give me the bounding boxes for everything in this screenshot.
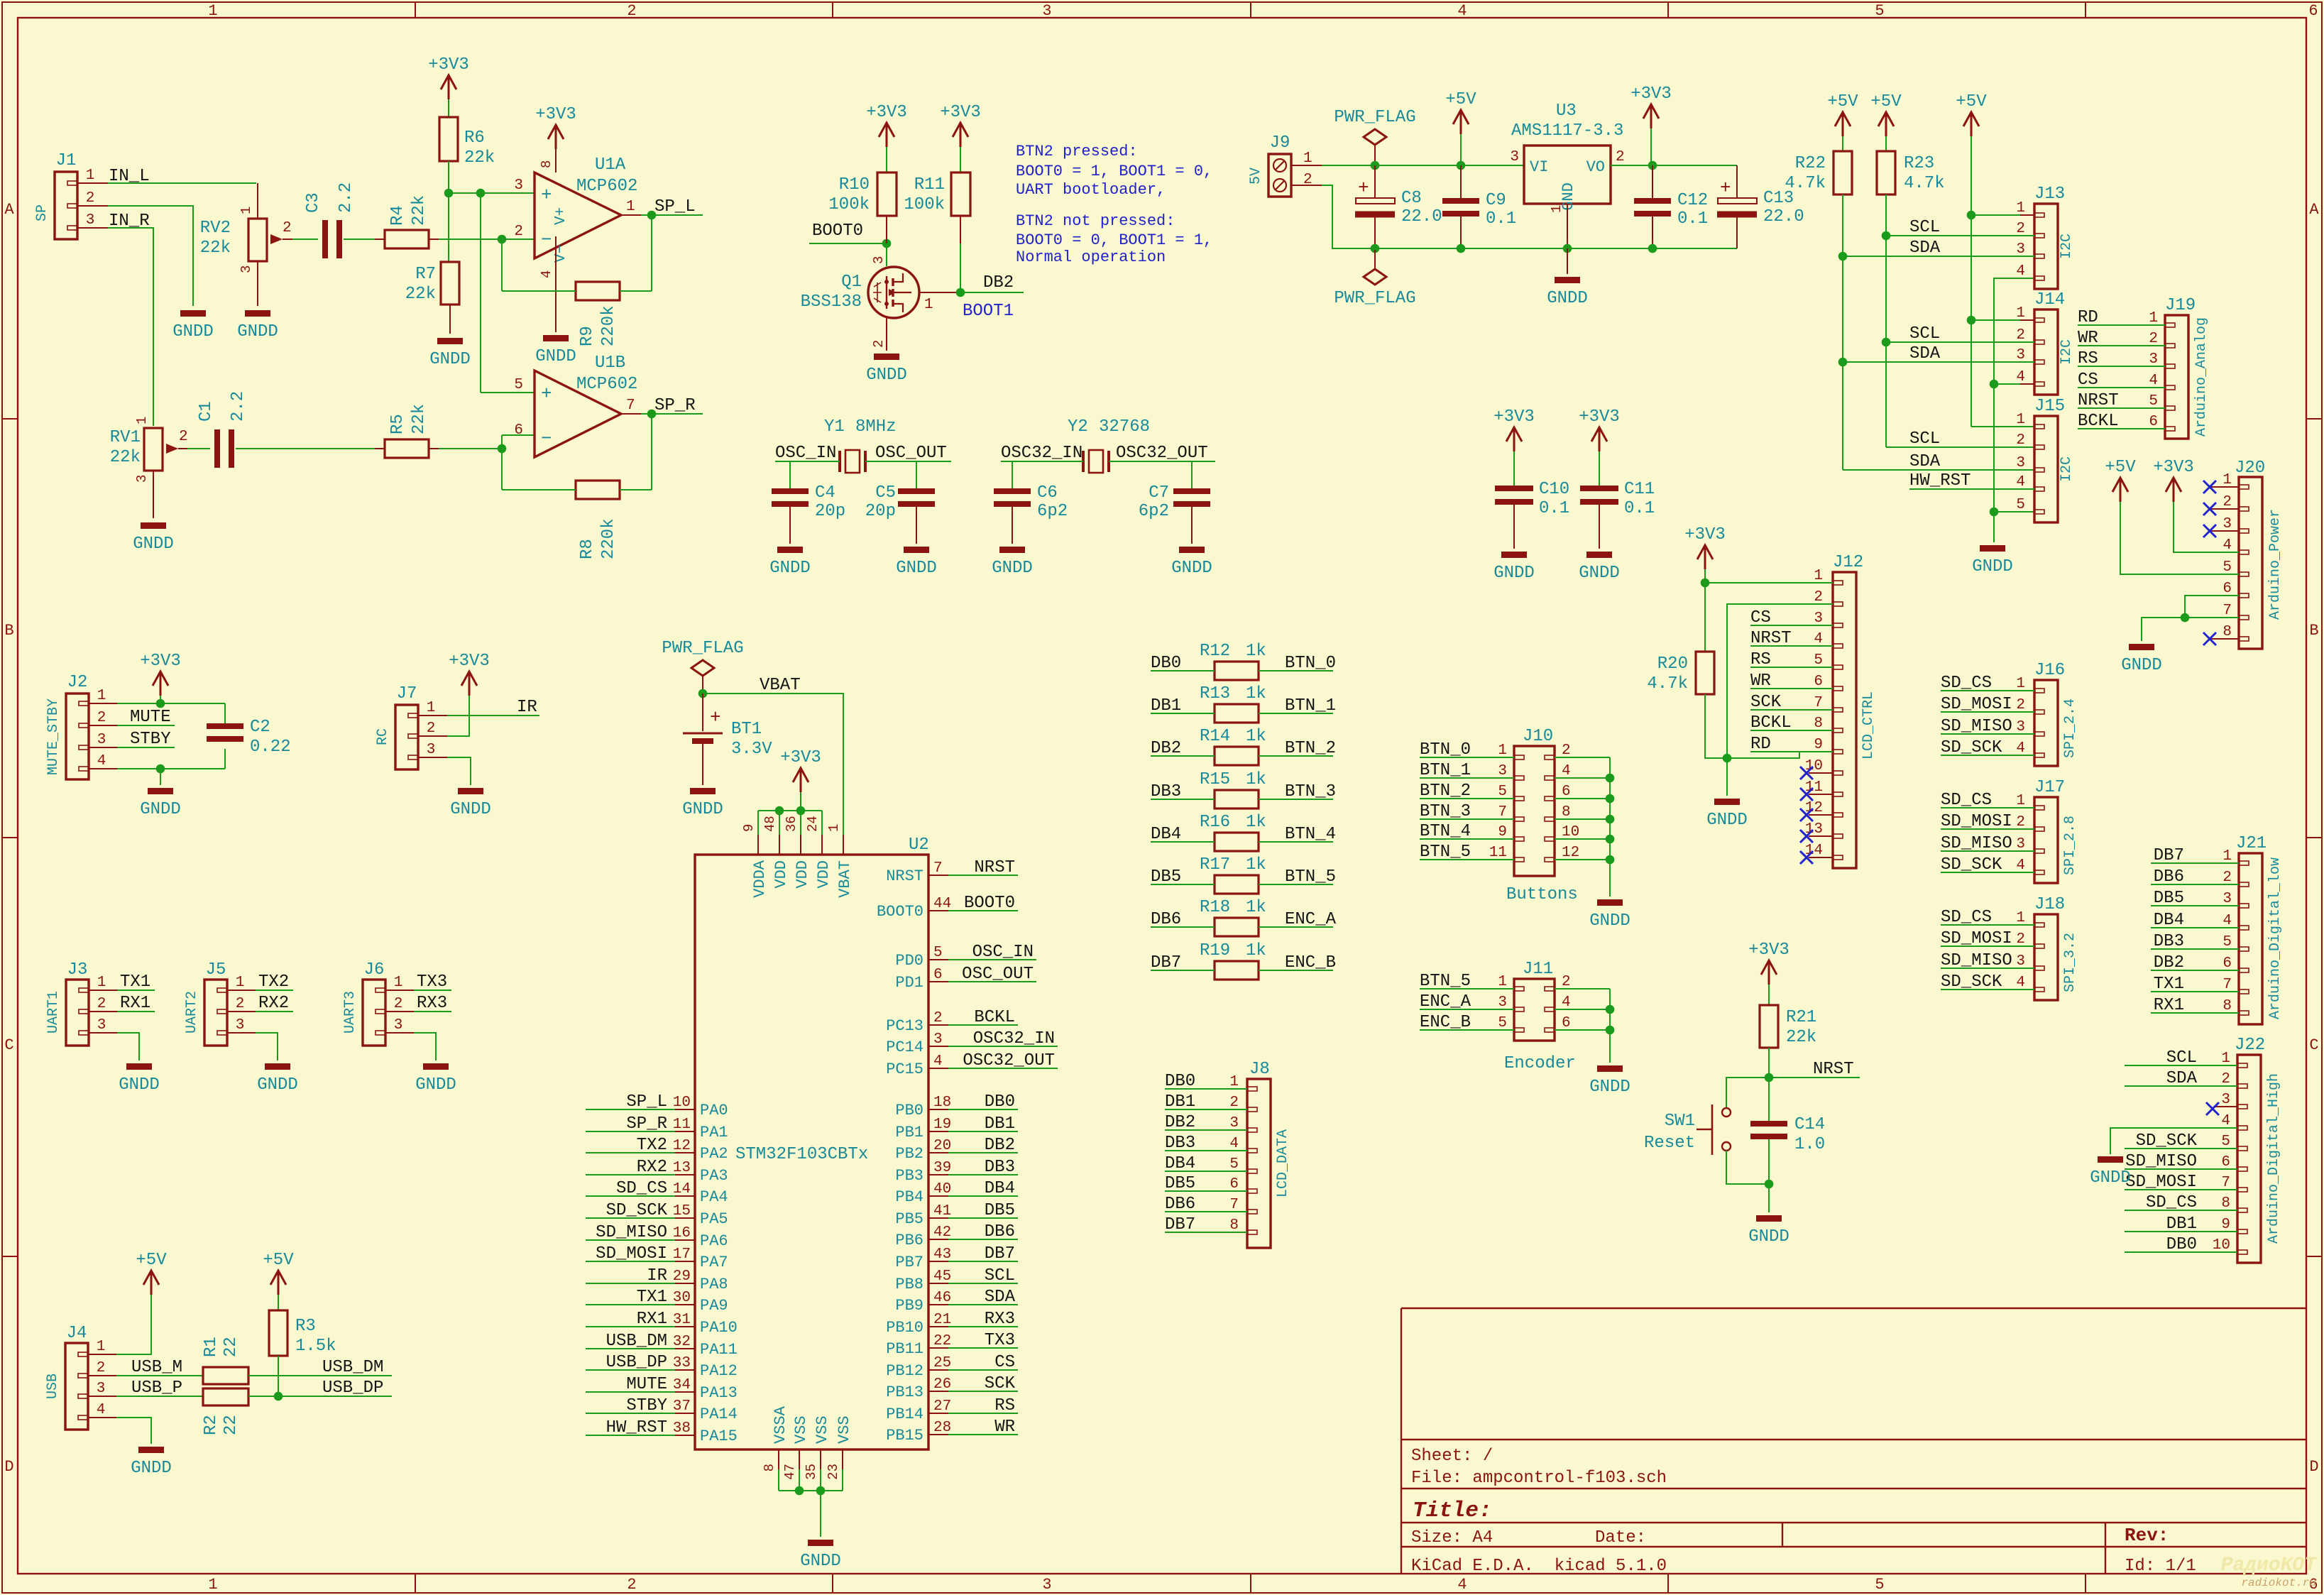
svg-text:+: +: [710, 707, 721, 728]
svg-text:2: 2: [2222, 870, 2232, 886]
svg-text:R16: R16: [1200, 813, 1230, 832]
svg-text:TX2: TX2: [258, 972, 289, 992]
svg-text:RD: RD: [1750, 735, 1771, 754]
connector J2 (MUTE_STBY): [66, 694, 89, 779]
svg-text:C: C: [2309, 1036, 2318, 1054]
svg-text:3: 3: [97, 1017, 106, 1034]
svg-text:PB2: PB2: [895, 1145, 923, 1163]
label TX2 (J5.1): [227, 990, 256, 991]
capacitor C7 6p2: [1173, 488, 1210, 494]
node NRST: [1765, 1073, 1774, 1082]
svg-text:2: 2: [97, 710, 106, 726]
svg-text:1: 1: [134, 417, 150, 424]
svg-text:SD_MISO: SD_MISO: [1941, 834, 2012, 853]
power +5V (C9): [1453, 110, 1469, 134]
svg-text:GNDD: GNDD: [450, 800, 491, 819]
svg-text:RS: RS: [1750, 650, 1771, 669]
svg-text:R7: R7: [415, 265, 436, 284]
svg-text:45: 45: [933, 1268, 951, 1285]
svg-text:UART2: UART2: [184, 991, 200, 1034]
pin 32 PA11 / label USB_DM (U2 left): [675, 1348, 695, 1349]
svg-text:SP: SP: [34, 204, 50, 221]
svg-text:26: 26: [933, 1376, 951, 1393]
svg-text:4: 4: [2016, 857, 2025, 874]
svg-text:RX2: RX2: [637, 1158, 667, 1177]
connector J17 (SPI_2.8): [2034, 797, 2058, 883]
svg-text:C8: C8: [1401, 189, 1422, 208]
svg-text:IN_R: IN_R: [109, 212, 150, 231]
svg-text:2: 2: [1229, 1095, 1239, 1111]
pin 42 PB6 / label DB6 (U2 right): [928, 1239, 948, 1240]
svg-text:SCL: SCL: [1909, 218, 1940, 237]
svg-text:30: 30: [673, 1290, 691, 1306]
power +3V3 (J12): [1697, 545, 1713, 569]
connector J5 (UART2): [204, 980, 227, 1046]
svg-text:1: 1: [924, 297, 933, 313]
svg-text:4: 4: [1562, 763, 1571, 779]
svg-text:D: D: [4, 1458, 13, 1476]
svg-text:BTN_2: BTN_2: [1420, 782, 1471, 801]
svg-text:J14: J14: [2034, 290, 2065, 309]
power +5V (R22): [1835, 112, 1851, 136]
svg-text:17: 17: [673, 1246, 691, 1263]
svg-text:C9: C9: [1486, 191, 1506, 210]
resistor R1 22: [203, 1367, 248, 1384]
svg-text:C7: C7: [1149, 483, 1169, 503]
svg-text:DB6: DB6: [985, 1222, 1015, 1242]
svg-text:DB5: DB5: [985, 1201, 1015, 1220]
svg-text:6: 6: [2221, 1154, 2230, 1171]
svg-text:J16: J16: [2034, 661, 2065, 680]
svg-text:DB0: DB0: [2166, 1235, 2197, 1254]
wire Q1 drain to DB2 node: [919, 292, 960, 293]
svg-text:OSC32_IN: OSC32_IN: [973, 1029, 1055, 1048]
svg-text:10: 10: [2213, 1237, 2230, 1254]
svg-text:8: 8: [2222, 624, 2232, 640]
pin 1 VBAT (U2 top): [843, 835, 844, 855]
wire R21 to NRST node: [1768, 1048, 1770, 1078]
svg-text:2: 2: [933, 1010, 943, 1026]
svg-text:12: 12: [1562, 845, 1579, 861]
svg-text:1: 1: [2016, 305, 2025, 322]
svg-text:BCKL: BCKL: [2078, 412, 2119, 431]
svg-text:+: +: [1720, 177, 1731, 199]
svg-text:1: 1: [2222, 472, 2232, 488]
svg-text:A: A: [4, 201, 14, 219]
pin 19 PB1 / label DB1 (U2 right): [928, 1131, 948, 1132]
resistor R22 4.7k: [1834, 151, 1852, 194]
svg-text:SP_R: SP_R: [626, 1114, 667, 1134]
svg-text:RV2: RV2: [200, 219, 231, 238]
wire J11 pin 4: [1555, 1009, 1610, 1010]
svg-text:5: 5: [933, 945, 943, 961]
connector J10 (Buttons): [1514, 746, 1555, 876]
svg-text:ENC_B: ENC_B: [1285, 953, 1336, 972]
svg-text:3: 3: [2016, 455, 2025, 471]
svg-text:USB_DM: USB_DM: [322, 1358, 383, 1377]
svg-text:BTN_0: BTN_0: [1420, 740, 1471, 760]
connector J8 (LCD_DATA): [1247, 1079, 1271, 1248]
svg-text:+3V3: +3V3: [449, 652, 490, 671]
svg-text:DB4: DB4: [2154, 911, 2184, 930]
svg-text:1: 1: [626, 199, 635, 215]
svg-text:6: 6: [1814, 674, 1823, 690]
svg-text:R20: R20: [1657, 654, 1688, 674]
svg-text:2: 2: [2016, 327, 2025, 344]
svg-text:3: 3: [2016, 953, 2025, 970]
svg-text:38: 38: [673, 1420, 691, 1437]
no-connect x (J12 pin 13): [1809, 835, 1833, 837]
wire GNDD chain vertical: [1994, 278, 2034, 512]
svg-text:DB4: DB4: [1165, 1154, 1195, 1173]
svg-text:SP_L: SP_L: [654, 197, 696, 216]
svg-text:R9: R9: [578, 326, 597, 346]
resistor R11 100k: [951, 172, 970, 216]
svg-text:1: 1: [239, 207, 254, 214]
node J14.4: [1990, 380, 1999, 389]
svg-text:SCL: SCL: [2166, 1048, 2197, 1068]
pin 39 PB3 / label DB3 (U2 right): [928, 1174, 948, 1175]
svg-text:0.22: 0.22: [250, 738, 291, 757]
wire J2 to GNDD: [160, 769, 161, 785]
wire J2.1: [89, 703, 117, 704]
svg-text:IR: IR: [647, 1266, 667, 1286]
wire J12.2 to gnd: [1727, 604, 1833, 796]
svg-text:J11: J11: [1523, 960, 1553, 979]
svg-text:1: 1: [1498, 974, 1507, 990]
pin 36 VDD (U2 top): [800, 835, 801, 855]
svg-text:6: 6: [2308, 2, 2318, 20]
svg-text:22k: 22k: [410, 195, 429, 226]
svg-text:U3: U3: [1556, 102, 1577, 121]
svg-text:10: 10: [673, 1095, 691, 1111]
svg-text:2: 2: [86, 190, 95, 207]
svg-text:I2C: I2C: [2059, 234, 2075, 259]
resistor R16 1k: [1215, 833, 1259, 851]
wire J10 pin 2: [1555, 757, 1610, 758]
svg-text:UART1: UART1: [45, 991, 62, 1034]
capacitor C2 0.22: [224, 703, 226, 723]
svg-text:+3V3: +3V3: [1493, 407, 1535, 427]
wire J11 gnd vertical: [1609, 989, 1611, 1063]
wire J10 pin 10: [1555, 838, 1610, 840]
connector J11 (Encoder): [1514, 979, 1555, 1041]
pin 21 PB10 / label RX3 (U2 right): [928, 1326, 948, 1327]
svg-text:VDD: VDD: [815, 860, 833, 889]
capacitor C6 6p2: [994, 488, 1031, 494]
svg-text:R13: R13: [1200, 684, 1230, 703]
svg-text:DB2: DB2: [2154, 953, 2184, 972]
svg-text:C5: C5: [875, 483, 896, 503]
svg-text:SD_CS: SD_CS: [616, 1179, 667, 1198]
wire J7.1 IR: [418, 715, 447, 716]
svg-text:SD_MOSI: SD_MOSI: [596, 1244, 667, 1264]
svg-text:4: 4: [2016, 369, 2025, 385]
wire R20 to RD: [1705, 694, 1799, 758]
capacitor C14 1.0: [1768, 1078, 1770, 1121]
svg-text:1k: 1k: [1246, 642, 1266, 661]
svg-text:44: 44: [933, 896, 951, 912]
pin 25 PB12 / label CS (U2 right): [928, 1369, 948, 1371]
connector J13 (I2C): [2034, 204, 2058, 289]
svg-text:24: 24: [805, 816, 821, 832]
capacitor C11 0.1: [1580, 486, 1618, 491]
svg-text:2: 2: [627, 2, 636, 20]
svg-text:36: 36: [784, 816, 799, 832]
svg-text:BOOT0 = 1, BOOT1 = 0,: BOOT0 = 1, BOOT1 = 0,: [1016, 163, 1212, 180]
ground GNDD (J5): [265, 1063, 290, 1070]
resistor R9 220k: [576, 282, 620, 300]
svg-text:1: 1: [2016, 910, 2025, 926]
svg-text:22: 22: [221, 1337, 241, 1357]
ground GNDD (RV1): [141, 522, 166, 529]
svg-text:BTN_5: BTN_5: [1420, 843, 1471, 862]
svg-text:5: 5: [2222, 559, 2232, 576]
wire C6 stem: [1012, 461, 1013, 488]
svg-text:1: 1: [97, 975, 106, 991]
svg-text:PA9: PA9: [700, 1297, 728, 1315]
svg-text:100k: 100k: [904, 195, 945, 214]
svg-text:ENC_A: ENC_A: [1285, 910, 1337, 929]
svg-text:9: 9: [741, 824, 757, 832]
svg-text:+3V3: +3V3: [866, 103, 907, 122]
resistor R4 22k: [385, 230, 429, 248]
svg-text:DB5: DB5: [1165, 1174, 1195, 1193]
svg-text:220k: 220k: [599, 305, 618, 346]
svg-text:4: 4: [1814, 631, 1823, 647]
svg-text:18: 18: [933, 1095, 951, 1111]
svg-text:RS: RS: [2078, 349, 2098, 368]
svg-text:6: 6: [2222, 955, 2232, 972]
svg-text:RX3: RX3: [417, 994, 447, 1013]
svg-text:I2C: I2C: [2059, 339, 2075, 365]
svg-text:GNDD: GNDD: [1171, 559, 1212, 578]
svg-text:BOOT0: BOOT0: [877, 903, 923, 921]
svg-text:+: +: [541, 383, 552, 405]
svg-text:32768: 32768: [1099, 417, 1150, 437]
power +5V (J20): [2112, 478, 2128, 502]
label TX3 (J6.1): [385, 990, 414, 991]
svg-text:PWR_FLAG: PWR_FLAG: [1334, 289, 1415, 308]
svg-text:SD_MISO: SD_MISO: [1941, 951, 2012, 970]
svg-text:SCK: SCK: [985, 1374, 1016, 1393]
svg-text:PA4: PA4: [700, 1188, 728, 1206]
svg-text:DB0: DB0: [1151, 654, 1181, 673]
pin 26 PB13 / label SCK (U2 right): [928, 1391, 948, 1392]
wire J4.4 to GNDD: [88, 1417, 116, 1418]
svg-text:6: 6: [1229, 1176, 1239, 1193]
svg-text:PA6: PA6: [700, 1232, 728, 1250]
wire J11 pin 6: [1555, 1029, 1610, 1031]
svg-text:4: 4: [933, 1053, 943, 1070]
svg-text:DB2: DB2: [1165, 1113, 1195, 1132]
label RX3 (J6.2): [385, 1011, 414, 1012]
svg-text:+5V: +5V: [1956, 92, 1987, 111]
wire R2 to USB_DP: [248, 1396, 392, 1397]
svg-text:22: 22: [221, 1415, 241, 1435]
svg-text:USB: USB: [45, 1374, 61, 1399]
svg-text:+: +: [541, 185, 552, 206]
svg-text:4: 4: [2221, 1113, 2230, 1129]
svg-text:1k: 1k: [1246, 813, 1266, 832]
connector J1 (SP): [55, 172, 77, 239]
svg-text:PD1: PD1: [895, 974, 923, 992]
svg-text:U1A: U1A: [595, 155, 626, 175]
svg-text:4: 4: [2016, 740, 2025, 757]
wire J5.3 to GNDD: [227, 1032, 256, 1034]
svg-text:R21: R21: [1786, 1008, 1816, 1027]
svg-text:GNDD: GNDD: [682, 800, 723, 819]
svg-text:CS: CS: [1750, 608, 1771, 627]
connector J9 (5V screw terminal): [1268, 154, 1291, 197]
svg-text:IN_L: IN_L: [109, 167, 150, 186]
svg-text:2: 2: [1562, 742, 1571, 759]
svg-text:1: 1: [826, 824, 842, 832]
resistor R14 1k: [1215, 747, 1259, 765]
wire J1.2 to GNDD: [77, 205, 108, 207]
svg-text:C3: C3: [304, 192, 323, 213]
svg-text:J8: J8: [1249, 1060, 1270, 1079]
svg-text:SD_MOSI: SD_MOSI: [2125, 1173, 2197, 1192]
svg-text:PC13: PC13: [886, 1017, 923, 1035]
svg-text:+3V3: +3V3: [140, 652, 181, 671]
svg-text:R23: R23: [1904, 154, 1934, 173]
wire R20 chain: [1704, 583, 1706, 652]
svg-text:SD_CS: SD_CS: [1941, 791, 1992, 810]
svg-text:R8: R8: [578, 539, 597, 559]
svg-text:+3V3: +3V3: [1748, 941, 1789, 960]
svg-text:BTN_5: BTN_5: [1420, 972, 1471, 991]
svg-text:SDA: SDA: [985, 1288, 1016, 1307]
svg-text:39: 39: [933, 1160, 951, 1176]
pin 29 PA8 / label IR (U2 left): [675, 1283, 695, 1284]
svg-text:Title:: Title:: [1413, 1498, 1492, 1523]
svg-text:2: 2: [2016, 814, 2025, 831]
svg-text:KiCad E.D.A. kicad 5.1.0: KiCad E.D.A. kicad 5.1.0: [1411, 1557, 1667, 1576]
svg-text:VBAT: VBAT: [836, 860, 854, 898]
svg-text:12: 12: [673, 1138, 691, 1154]
svg-text:RX1: RX1: [2154, 996, 2184, 1015]
svg-text:0.1: 0.1: [1677, 209, 1708, 229]
svg-text:R4: R4: [388, 205, 407, 226]
node C12 top: [1648, 161, 1657, 170]
resistor R6 22k: [439, 117, 458, 161]
svg-text:R15: R15: [1200, 770, 1230, 789]
svg-text:OSC_OUT: OSC_OUT: [875, 444, 947, 463]
svg-text:OSC_IN: OSC_IN: [775, 444, 836, 463]
svg-text:LCD_CTRL: LCD_CTRL: [1860, 691, 1877, 760]
svg-text:15: 15: [673, 1203, 691, 1219]
svg-text:J13: J13: [2034, 185, 2065, 204]
resistor R15 1k: [1215, 790, 1259, 809]
wire J13.1: [1967, 211, 1976, 220]
svg-text:7: 7: [2222, 977, 2232, 993]
svg-text:SPI_2.4: SPI_2.4: [2062, 698, 2078, 758]
svg-text:PB13: PB13: [886, 1383, 923, 1401]
svg-text:19: 19: [933, 1117, 951, 1133]
pin 46 PB9 / label SDA (U2 right): [928, 1304, 948, 1305]
svg-text:−: −: [541, 428, 552, 449]
svg-text:R11: R11: [914, 175, 945, 194]
svg-text:B: B: [2309, 622, 2318, 640]
svg-text:GNDD: GNDD: [119, 1075, 160, 1095]
svg-text:0.1: 0.1: [1624, 499, 1655, 518]
wire R1 to USB_DM: [248, 1375, 392, 1376]
svg-text:DB6: DB6: [2154, 867, 2184, 887]
svg-text:PA8: PA8: [700, 1276, 728, 1293]
connector J19 (Arduino_Analog): [2165, 315, 2188, 439]
svg-text:USB_DP: USB_DP: [322, 1379, 383, 1398]
connector J20 (Arduino_Power): [2239, 477, 2262, 649]
svg-text:GNDD: GNDD: [800, 1552, 841, 1571]
svg-text:OSC32_IN: OSC32_IN: [1001, 444, 1082, 463]
pin 45 PB8 / label SCL (U2 right): [928, 1283, 948, 1284]
connector J4 (USB): [65, 1343, 88, 1430]
svg-text:SCL: SCL: [1909, 324, 1940, 344]
svg-text:VDDA: VDDA: [751, 860, 769, 898]
wire J10 pin 4: [1555, 777, 1610, 779]
svg-text:DB6: DB6: [1151, 910, 1181, 929]
svg-text:0.1: 0.1: [1486, 209, 1516, 229]
svg-text:21: 21: [933, 1312, 951, 1328]
ground GNDD (J20): [2129, 644, 2154, 650]
wire J11 pin 2: [1555, 988, 1610, 990]
svg-text:J15: J15: [2034, 397, 2065, 416]
svg-text:5: 5: [2221, 1134, 2230, 1150]
wire U1A output feedback: [621, 214, 641, 216]
ground GNDD (Q1): [874, 353, 899, 360]
wire C3 to R4: [344, 239, 375, 240]
svg-text:6: 6: [1562, 784, 1571, 800]
svg-text:PA0: PA0: [700, 1102, 728, 1119]
svg-text:7: 7: [1498, 804, 1507, 821]
svg-text:22k: 22k: [200, 239, 231, 258]
svg-text:SD_SCK: SD_SCK: [606, 1201, 668, 1220]
svg-text:VSS: VSS: [813, 1415, 831, 1444]
svg-text:Date:: Date:: [1595, 1528, 1646, 1547]
svg-text:BTN_1: BTN_1: [1285, 696, 1336, 716]
svg-text:PB11: PB11: [886, 1340, 923, 1358]
capacitor C5 20p: [898, 488, 935, 494]
svg-text:1: 1: [236, 975, 245, 991]
pin 28 PB15 / label WR (U2 right): [928, 1434, 948, 1435]
label TX1 (J3.1): [89, 990, 117, 991]
svg-text:DB2: DB2: [985, 1136, 1015, 1155]
svg-text:PA10: PA10: [700, 1319, 738, 1337]
svg-text:J20: J20: [2235, 459, 2265, 478]
svg-text:3: 3: [2222, 516, 2232, 532]
svg-text:R22: R22: [1795, 154, 1826, 173]
pin 37 PA14 / label STBY (U2 left): [675, 1413, 695, 1414]
svg-text:32: 32: [673, 1334, 691, 1350]
title block frame: [1401, 1308, 2306, 1309]
pin 11 PA1 / label SP_R (U2 left): [675, 1131, 695, 1132]
svg-text:GNDD: GNDD: [1493, 564, 1535, 583]
svg-text:PB0: PB0: [895, 1102, 923, 1119]
svg-text:2: 2: [2016, 931, 2025, 948]
svg-text:100k: 100k: [828, 195, 870, 214]
svg-text:C10: C10: [1539, 480, 1569, 499]
svg-text:TX1: TX1: [120, 972, 150, 992]
svg-text:GNDD: GNDD: [2090, 1168, 2131, 1188]
svg-text:33: 33: [673, 1355, 691, 1371]
wire J14.1: [1967, 316, 1976, 325]
connector J21 (Arduino_Digital_low): [2239, 853, 2262, 1024]
wire bias to U1B pin5: [480, 193, 481, 393]
svg-text:Encoder: Encoder: [1504, 1054, 1576, 1073]
wire bias to U1A pin3: [449, 192, 535, 194]
power +3V3 (R21): [1761, 960, 1777, 985]
